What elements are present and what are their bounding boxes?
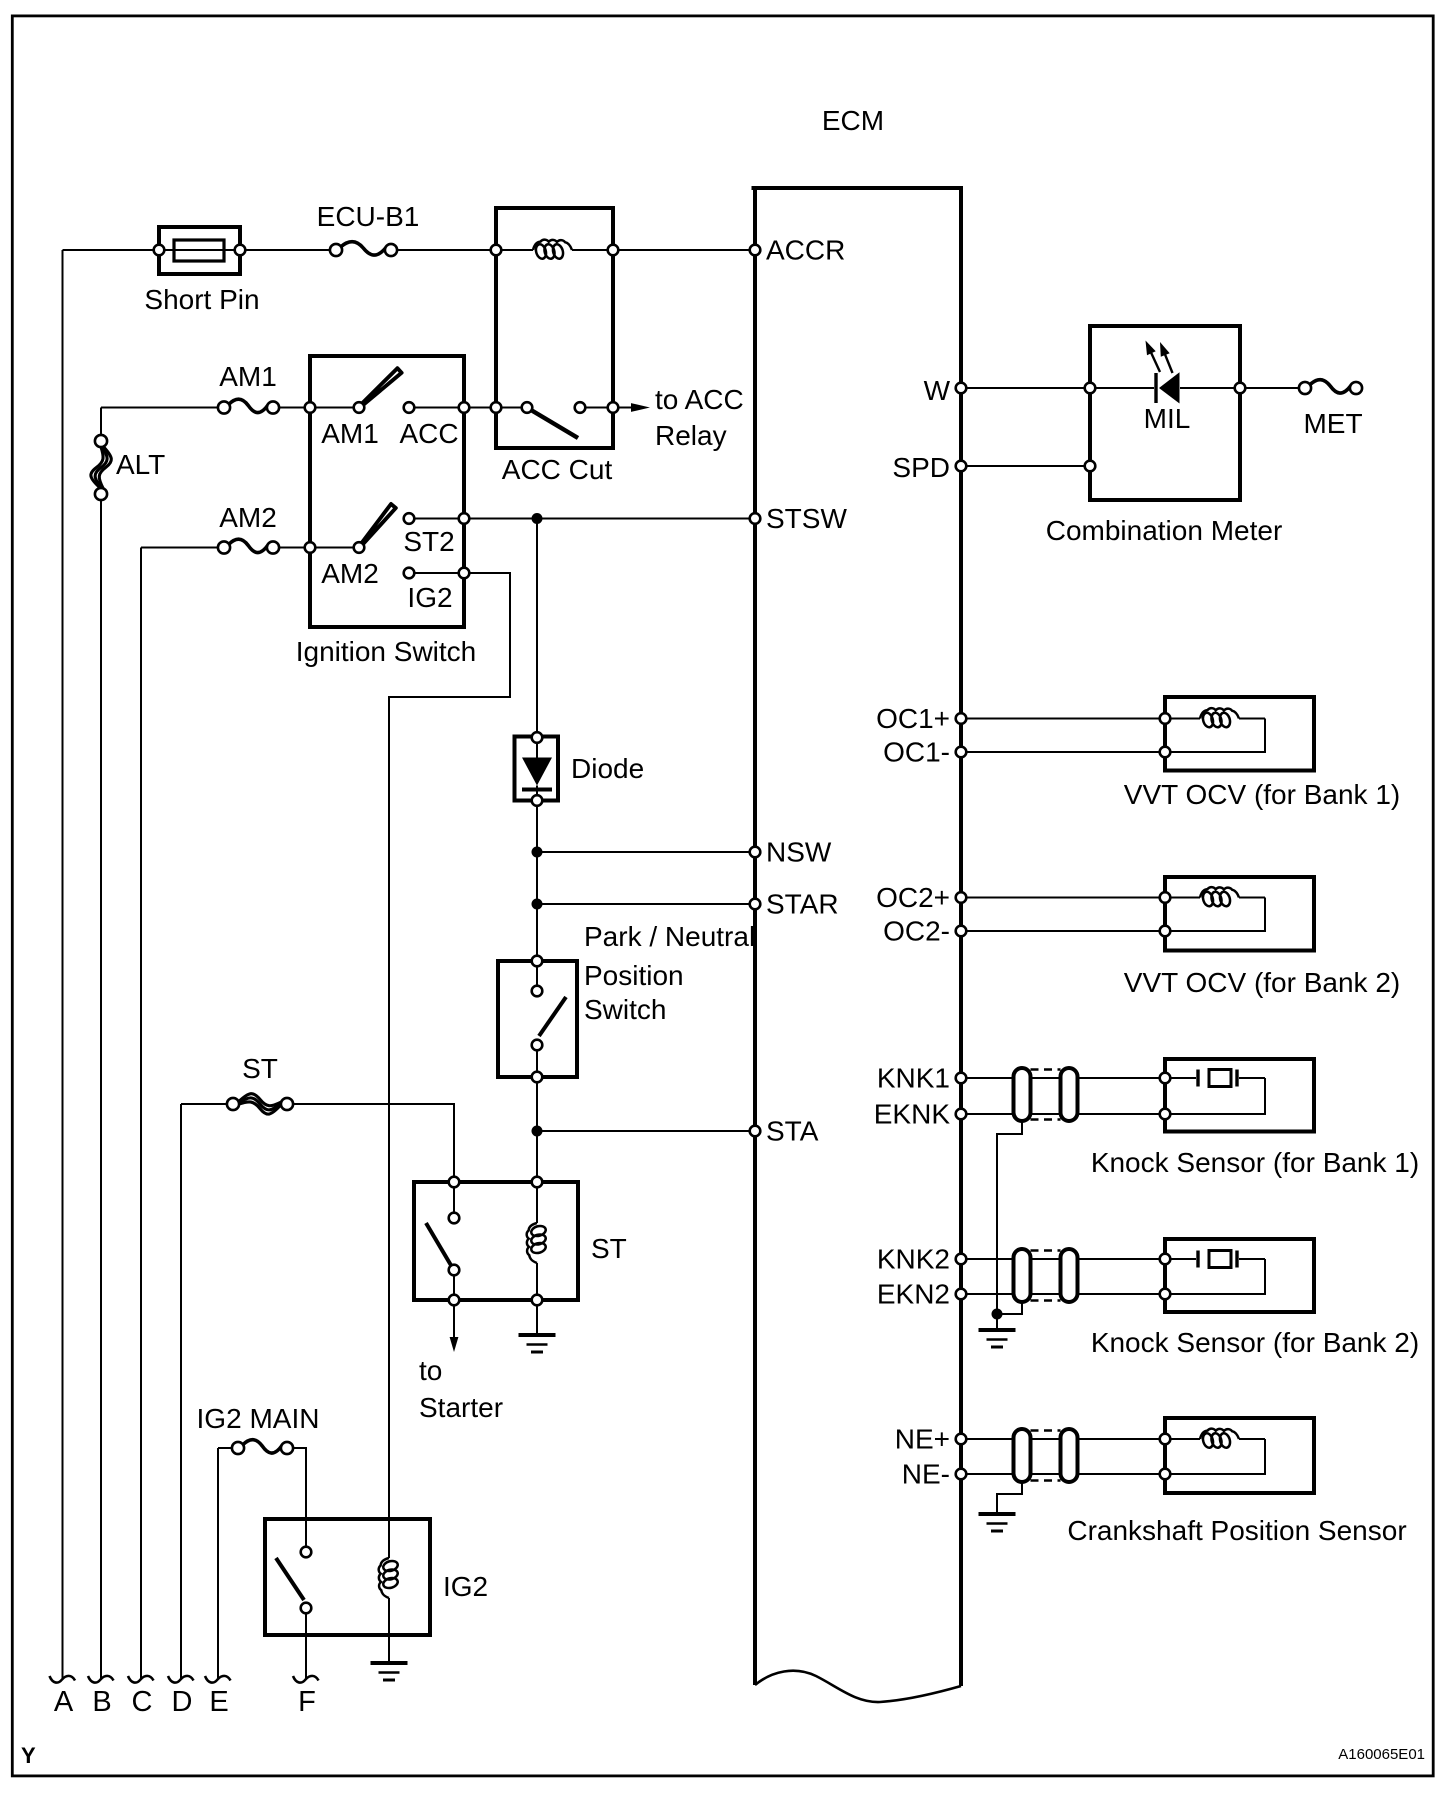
wire ST2 contact to box edge: [409, 518, 464, 520]
wire STAR node to Park/Neutral switch: [536, 904, 538, 961]
ST relay coil: [527, 1223, 537, 1263]
svg-text:IG2: IG2: [443, 1571, 488, 1602]
ACC Cut coil: [533, 240, 572, 250]
svg-text:AM1: AM1: [321, 418, 379, 449]
wire MIL anode lead: [1090, 387, 1154, 389]
wire STSW node down to diode: [536, 519, 538, 738]
fuse ECU-B1: [341, 242, 387, 255]
crankshaft sensor coil: [1200, 1429, 1239, 1439]
svg-text:E: E: [209, 1686, 228, 1718]
svg-text:OC1-: OC1-: [883, 737, 950, 768]
svg-text:W: W: [924, 375, 951, 406]
svg-text:D: D: [172, 1686, 193, 1718]
wire IG2 relay switch to connector F: [305, 1608, 307, 1678]
wire ST relay coil to ground: [536, 1300, 538, 1333]
wire ACC Cut coil right lead: [572, 249, 613, 251]
ground IG2 relay coil: [371, 1661, 408, 1665]
svg-text:Combination Meter: Combination Meter: [1046, 515, 1283, 546]
svg-text:A: A: [54, 1686, 74, 1718]
fusible link ALT: [91, 447, 103, 489]
ECM pin STAR: [750, 899, 761, 910]
svg-text:ECM: ECM: [822, 105, 884, 136]
ECM pin STA: [750, 1126, 761, 1137]
wire IG2 relay coil bottom to ground: [388, 1598, 390, 1661]
ECM pin NE-: [956, 1469, 967, 1480]
wire P/N switch to STA node: [536, 1077, 538, 1131]
wire STA node to ST relay coil: [536, 1131, 538, 1182]
wire knock shield bank2 drain: [997, 1302, 1022, 1314]
svg-text:Relay: Relay: [655, 420, 727, 451]
node STSW junction: [532, 513, 543, 524]
wire VVT OCV bank2 coil leads: [1165, 897, 1200, 899]
svg-text:OC1+: OC1+: [876, 703, 950, 734]
svg-text:C: C: [132, 1686, 153, 1718]
wire ECM pin NE+ to crankshaft sensor: [961, 1438, 1165, 1440]
svg-text:Position: Position: [584, 960, 684, 991]
combination meter terminals: [1085, 383, 1096, 394]
svg-text:IG2 MAIN: IG2 MAIN: [197, 1403, 320, 1434]
wire ACC Cut switch contact lead: [580, 407, 613, 409]
svg-text:AM2: AM2: [321, 558, 379, 589]
wire ECM pin NE- to crankshaft sensor: [961, 1473, 1165, 1475]
ECM pin OC2+: [956, 892, 967, 903]
VVT OCV bank2 coil: [1200, 887, 1239, 897]
wire ECM pin SPD to Combination Meter: [961, 465, 1090, 467]
fusible link ST: [239, 1094, 282, 1106]
connector B: [88, 1676, 114, 1683]
MIL lamp (LED): [1154, 373, 1157, 403]
ECM pin STSW: [750, 513, 761, 524]
svg-text:KNK2: KNK2: [877, 1244, 950, 1275]
wire IG2 feed to relay coil (down and across): [389, 573, 510, 1558]
node STA junction: [532, 1126, 543, 1137]
wire AM1 fuse to Ignition Switch: [273, 407, 310, 409]
VVT OCV bank2 box: [1165, 877, 1314, 951]
wire ACC Cut coil left lead: [496, 249, 533, 251]
svg-text:ACC Cut: ACC Cut: [502, 454, 613, 485]
node STAR junction: [532, 899, 543, 910]
wire P/N switch top contact lead: [536, 961, 538, 991]
fusible link MET: [1310, 380, 1352, 393]
svg-text:ACC: ACC: [399, 418, 458, 449]
ignition switch AM1 pole: [305, 402, 316, 413]
wire battery feed to Short Pin (net A): [63, 249, 154, 251]
wire B line corner to ALT: [100, 408, 102, 442]
connector C: [128, 1676, 154, 1683]
diode D1: [515, 737, 559, 801]
connector D: [168, 1676, 194, 1683]
shield knock sensor bank1: [1014, 1068, 1031, 1121]
svg-text:NSW: NSW: [766, 837, 832, 868]
svg-text:MIL: MIL: [1144, 403, 1191, 434]
wire ECM pin KNK1 to knock sensor bank1: [961, 1077, 1165, 1079]
svg-text:MET: MET: [1303, 408, 1362, 439]
svg-text:ALT: ALT: [116, 449, 165, 480]
wire E line down to connector E: [217, 1448, 219, 1678]
ECM pin SPD: [956, 461, 967, 472]
wire ST link to ST relay switch: [287, 1104, 454, 1182]
svg-text:A160065E01: A160065E01: [1338, 1746, 1425, 1763]
svg-text:AM2: AM2: [219, 502, 277, 533]
node NSW junction: [532, 847, 543, 858]
svg-text:F: F: [298, 1686, 316, 1718]
IG2 relay switch: [276, 1558, 304, 1600]
short pin SP: [159, 227, 240, 274]
ignition switch AM2 pole: [305, 542, 316, 553]
wire knock sensor bank2 element leads: [1165, 1258, 1196, 1260]
ECM pin NE+: [956, 1434, 967, 1445]
connector F: [293, 1676, 319, 1683]
svg-text:VVT OCV (for Bank 2): VVT OCV (for Bank 2): [1124, 967, 1400, 998]
wire P/N switch lower contact lead: [536, 1045, 538, 1077]
ACC Cut coil terminals: [491, 245, 502, 256]
wire ECM pin KNK2 to knock sensor bank2: [961, 1258, 1165, 1260]
shield knock sensor bank2: [1014, 1249, 1031, 1302]
wire IG2 MAIN fuse to IG2 relay switch: [287, 1448, 306, 1552]
svg-text:STSW: STSW: [766, 503, 847, 534]
VVT OCV bank1 coil: [1200, 708, 1239, 718]
wire ST2 to ECM pin STSW: [464, 518, 755, 520]
svg-text:Park / Neutral: Park / Neutral: [584, 921, 755, 952]
ACC Cut switch: [491, 402, 502, 413]
svg-text:Short Pin: Short Pin: [144, 284, 259, 315]
wire ECM pin OC2+ to VVT OCV bank2: [961, 897, 1165, 899]
park/neutral position switch: [498, 961, 577, 1077]
svg-text:Y: Y: [21, 1743, 36, 1768]
wire ACC Cut to ECM pin ACCR: [613, 249, 755, 251]
ignition switch IG2 terminal: [404, 568, 415, 579]
svg-text:NE+: NE+: [895, 1424, 950, 1455]
node shield ground junction: [992, 1309, 1003, 1320]
wire knock shield ground stem: [996, 1314, 998, 1328]
wire Ignition Switch ACC to ACC Cut: [464, 407, 496, 409]
ECM pin OC2-: [956, 926, 967, 937]
knock sensor bank2 element: [1196, 1251, 1199, 1268]
wire ECM pin EKN2 to knock sensor bank2: [961, 1293, 1165, 1295]
svg-text:Knock Sensor (for Bank 1): Knock Sensor (for Bank 1): [1091, 1147, 1419, 1178]
wire Combination Meter to MET link: [1240, 387, 1305, 389]
VVT OCV bank1 box: [1165, 697, 1314, 771]
connector E: [205, 1676, 231, 1683]
ECM pin EKN2: [956, 1289, 967, 1300]
wire AM2 feed (net C): [141, 547, 224, 549]
IG2 relay coil: [379, 1558, 389, 1598]
ECM pin OC1+: [956, 713, 967, 724]
svg-text:ACCR: ACCR: [766, 235, 845, 266]
wire ACC Cut switch common lead: [496, 407, 527, 409]
svg-text:SPD: SPD: [892, 452, 950, 483]
ST relay switch: [426, 1223, 452, 1267]
ECM pin EKNK: [956, 1109, 967, 1120]
wire D line down to connector D: [180, 1104, 182, 1678]
wire IG2 contact to box edge: [409, 572, 464, 574]
connector A: [50, 1676, 76, 1683]
ECM pin ACCR: [750, 245, 761, 256]
knock sensor bank2 box: [1165, 1239, 1314, 1312]
crankshaft position sensor box: [1165, 1418, 1314, 1493]
svg-text:AM1: AM1: [219, 361, 277, 392]
wire ST relay coil bottom lead: [536, 1263, 538, 1300]
fuse IG2 MAIN: [243, 1440, 283, 1453]
ECM pin W: [956, 383, 967, 394]
svg-text:B: B: [92, 1686, 111, 1718]
wire AM1 terminal to pivot: [310, 407, 359, 409]
svg-text:Knock Sensor (for Bank 2): Knock Sensor (for Bank 2): [1091, 1327, 1419, 1358]
ECM pin KNK2: [956, 1254, 967, 1265]
svg-text:STA: STA: [766, 1116, 819, 1147]
relay IG2 box: [265, 1519, 430, 1635]
wire NSW node to STAR node: [536, 852, 538, 904]
ignition switch box: [310, 356, 464, 627]
wire ST relay coil top lead: [536, 1182, 538, 1223]
wire ECU-B1 fuse to ACC Cut relay: [397, 249, 496, 251]
ECM pin NSW: [750, 847, 761, 858]
svg-text:NE-: NE-: [902, 1459, 950, 1490]
fuse AM1: [229, 399, 269, 412]
svg-text:OC2+: OC2+: [876, 882, 950, 913]
fuse AM2: [229, 539, 269, 552]
svg-text:Starter: Starter: [419, 1392, 503, 1423]
shield crankshaft sensor: [1014, 1429, 1031, 1482]
ECM pin KNK1: [956, 1073, 967, 1084]
wire MIL cathode lead: [1180, 387, 1240, 389]
combination meter box: [1090, 326, 1240, 500]
wire IG2 MAIN feed (net E): [218, 1447, 238, 1449]
wire ECM pin W to Combination Meter: [961, 387, 1090, 389]
wire ST relay output arrow to Starter: [453, 1300, 455, 1338]
wire STAR node to ECM pin STAR: [537, 903, 755, 905]
wire ACC contact to box edge: [409, 407, 464, 409]
knock sensor bank1 box: [1165, 1059, 1314, 1132]
relay ACC Cut box: [496, 208, 613, 448]
svg-text:IG2: IG2: [407, 582, 452, 613]
wire ACC Cut output arrow to ACC Relay: [613, 407, 634, 409]
wire NE shield drain: [997, 1482, 1022, 1512]
wire NSW node to ECM pin NSW: [537, 851, 755, 853]
wire AM2 fuse to Ignition Switch: [273, 547, 310, 549]
svg-text:ST: ST: [242, 1053, 278, 1084]
svg-text:VVT OCV (for Bank 1): VVT OCV (for Bank 1): [1124, 779, 1400, 810]
wire knock shield bank1 drain: [997, 1121, 1022, 1314]
wire ALT down to connector B: [100, 494, 102, 1678]
wire ST relay switch to output: [453, 1270, 455, 1300]
wire Short Pin to ECU-B1 fuse: [246, 249, 330, 251]
ground crankshaft sensor shield: [979, 1512, 1016, 1516]
svg-text:ST: ST: [591, 1233, 627, 1264]
ECM box (torn bottom): [753, 188, 757, 1685]
wire diode to NSW node: [536, 801, 538, 853]
svg-text:EKN2: EKN2: [877, 1279, 950, 1310]
svg-text:Switch: Switch: [584, 994, 666, 1025]
wire ST fusible link feed (net D): [181, 1103, 233, 1105]
relay ST box: [414, 1182, 578, 1300]
wire crankshaft sensor coil leads: [1165, 1438, 1200, 1440]
wire ECM pin EKNK to knock sensor bank1: [961, 1113, 1165, 1115]
svg-text:Crankshaft Position Sensor: Crankshaft Position Sensor: [1067, 1515, 1406, 1546]
svg-text:Ignition Switch: Ignition Switch: [296, 636, 477, 667]
ground knock sensor shields: [979, 1328, 1016, 1332]
wire STA node to ECM pin STA: [537, 1130, 755, 1132]
wire AM2 terminal to pivot: [310, 547, 359, 549]
wire VVT OCV bank1 coil leads: [1165, 718, 1200, 720]
wire A line down to connector A: [62, 250, 64, 1678]
svg-text:ST2: ST2: [403, 526, 454, 557]
ground ST relay coil: [519, 1333, 556, 1337]
wire AM1 feed from ALT (net B): [101, 407, 224, 409]
svg-text:OC2-: OC2-: [883, 916, 950, 947]
wire knock sensor bank1 element leads: [1165, 1077, 1196, 1079]
knock sensor bank1 element: [1196, 1070, 1199, 1087]
svg-text:to ACC: to ACC: [655, 384, 744, 415]
wire ST relay switch fixed contact lead: [453, 1182, 455, 1218]
wire ECM pin OC2- to VVT OCV bank2: [961, 930, 1165, 932]
wire ECM pin OC1- to VVT OCV bank1: [961, 751, 1165, 753]
svg-text:Diode: Diode: [571, 753, 644, 784]
svg-text:to: to: [419, 1355, 442, 1386]
wire C line down to connector C: [140, 548, 142, 1679]
svg-text:KNK1: KNK1: [877, 1063, 950, 1094]
svg-text:EKNK: EKNK: [874, 1099, 951, 1130]
wire ECM pin OC1+ to VVT OCV bank1: [961, 718, 1165, 720]
ECM pin OC1-: [956, 747, 967, 758]
svg-text:ECU-B1: ECU-B1: [317, 201, 420, 232]
svg-text:STAR: STAR: [766, 889, 839, 920]
